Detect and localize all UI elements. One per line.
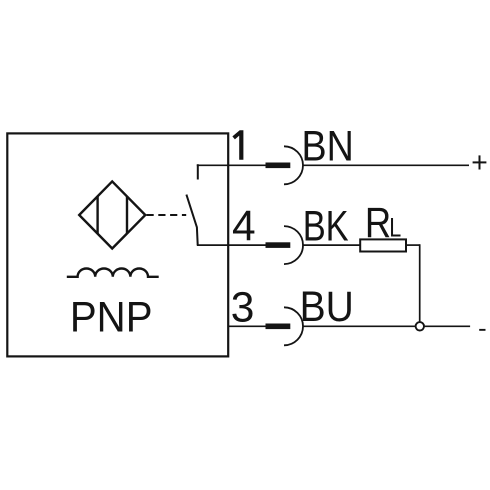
connector socket arc pin 3 [284, 307, 303, 345]
junction node (open circle) [416, 322, 424, 330]
+ terminal [473, 155, 487, 169]
wire: resistor to corner [406, 244, 420, 246]
wire: box edge to plug pin 3 [228, 325, 266, 327]
resistor RL [360, 239, 406, 251]
switch blade (NO contact) [186, 195, 197, 245]
wire: pin 4 to resistor [303, 244, 361, 246]
inductor L1 [67, 269, 159, 277]
connector socket arc pin 4 [284, 226, 303, 264]
svg-text:BU: BU [300, 284, 354, 331]
wire: junction to - terminal [424, 325, 470, 327]
plug contact pin 4 (bar) [266, 242, 291, 248]
wire: switch top terminal to plug pin 1 [197, 164, 266, 166]
wire: pin 3 to junction [303, 325, 416, 327]
svg-text:PNP: PNP [70, 295, 153, 342]
svg-text:BN: BN [302, 124, 354, 171]
sensor body box [7, 133, 228, 356]
proximity sensor symbol (diamond) [79, 181, 145, 248]
wire: corner down to junction [419, 244, 421, 322]
svg-text:L: L [389, 213, 401, 243]
svg-text:3: 3 [231, 284, 255, 331]
switch fixed contact tick [197, 164, 199, 179]
pin number 1 [232, 130, 243, 160]
svg-text:BK: BK [303, 203, 349, 250]
wire: switch bottom terminal to plug pin 4 [197, 244, 266, 246]
plug contact pin 3 (bar) [266, 324, 291, 330]
svg-text:4: 4 [232, 203, 256, 250]
connector socket arc pin 1 [284, 146, 303, 184]
wire: pin 1 to + terminal [303, 164, 469, 166]
- terminal [479, 329, 485, 331]
plug contact pin 1 (bar) [266, 163, 291, 169]
dashed actuation line [147, 214, 187, 216]
